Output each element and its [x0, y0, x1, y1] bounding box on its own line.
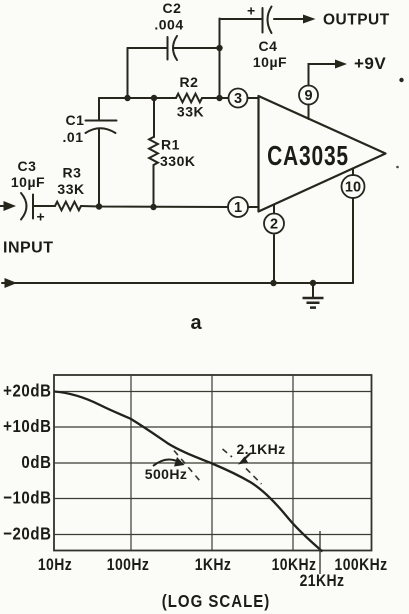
capacitor C4 [247, 3, 272, 34]
wire R2 to pin3 [202, 97, 229, 99]
svg-text:(LOG SCALE): (LOG SCALE) [162, 592, 270, 611]
svg-text:100Hz: 100Hz [107, 556, 149, 574]
wire pin1 to op-amp [248, 206, 258, 208]
ground rail wire [2, 278, 353, 288]
pin 10 [342, 169, 365, 198]
response curve [54, 392, 323, 552]
wire C1 top leg [98, 98, 100, 120]
supply +9V arrow [309, 60, 348, 86]
svg-text:R2: R2 [180, 74, 199, 90]
svg-text:0dB: 0dB [21, 452, 51, 473]
arrow to OUTPUT [303, 15, 316, 24]
pin 2 [264, 205, 284, 234]
gridline 100Hz [130, 375, 132, 551]
wire pin10 to ground rail [352, 198, 354, 283]
gridline -20dB [54, 534, 372, 536]
node wire y98 [99, 97, 176, 99]
svg-text:C3: C3 [18, 158, 37, 174]
capacitor C3 [21, 193, 45, 225]
gridline 10KHz [292, 375, 294, 551]
svg-text:2.1KHz: 2.1KHz [236, 441, 285, 457]
wire top to C4 [220, 18, 263, 20]
gridline 1KHz [211, 375, 213, 551]
svg-text:R1: R1 [161, 137, 180, 153]
21KHz leader line [319, 531, 321, 574]
svg-text:R3: R3 [63, 165, 82, 181]
svg-text:.01: .01 [63, 129, 84, 145]
input arrow [0, 201, 16, 211]
svg-text:C4: C4 [259, 38, 278, 54]
svg-text:+: + [247, 3, 256, 19]
junction dot C2 branch [124, 95, 130, 101]
svg-text:33K: 33K [177, 104, 204, 120]
svg-text:.004: .004 [154, 17, 183, 33]
svg-text:33K: 33K [57, 181, 84, 197]
svg-text:2: 2 [270, 217, 278, 233]
wire pin2 to ground rail [273, 235, 275, 283]
wire R1 bottom leg [153, 165, 155, 207]
op-amp U1 [259, 96, 386, 212]
svg-text:10µF: 10µF [11, 174, 45, 190]
resistor R2 [176, 94, 202, 103]
pin 1 [228, 197, 248, 217]
svg-text:C2: C2 [163, 0, 182, 16]
svg-text:+9V: +9V [354, 54, 386, 73]
annotation 500Hz arrow [153, 457, 185, 467]
svg-text:1: 1 [234, 200, 242, 216]
svg-text:500Hz: 500Hz [145, 466, 187, 482]
pin 9 [299, 86, 318, 105]
resistor R3 [55, 202, 81, 211]
svg-text:21KHz: 21KHz [300, 572, 345, 590]
wire C3 to R3 [33, 205, 55, 207]
ground [303, 283, 324, 308]
gridline +20dB [54, 391, 372, 393]
svg-text:−20dB: −20dB [3, 523, 51, 544]
svg-text:C1: C1 [66, 112, 85, 128]
junction dot R1 [150, 204, 156, 210]
svg-text:10Hz: 10Hz [38, 556, 72, 574]
svg-text:+10dB: +10dB [3, 416, 51, 437]
resistor R1 [149, 137, 158, 165]
svg-text:10: 10 [345, 180, 361, 196]
svg-text:+20dB: +20dB [3, 380, 51, 401]
svg-text:OUTPUT: OUTPUT [323, 12, 390, 29]
wire C4 to output arrow [274, 18, 304, 20]
svg-text:+: + [37, 209, 46, 225]
graph frame [54, 375, 372, 551]
svg-text:CA3035: CA3035 [267, 141, 349, 171]
svg-text:−10dB: −10dB [3, 487, 51, 508]
svg-text:INPUT: INPUT [3, 240, 54, 257]
wire C2 to node [174, 47, 220, 49]
annotation 2.1KHz arrow [238, 454, 250, 465]
speck right of apex [396, 166, 399, 169]
junction dot R1 branch [151, 95, 157, 101]
svg-text:a: a [190, 312, 202, 334]
wire R3 to pin1 [81, 206, 228, 207]
svg-text:9: 9 [304, 88, 312, 104]
svg-text:10µF: 10µF [253, 54, 287, 70]
wire R1 top leg [153, 98, 155, 137]
svg-text:330K: 330K [160, 153, 195, 169]
svg-text:3: 3 [234, 91, 242, 107]
junction dot pin2 [270, 280, 276, 286]
wire output node vertical [219, 19, 221, 99]
wire pin9 to op-amp [308, 105, 310, 120]
junction dot C1 [96, 203, 102, 209]
wire C1 bottom leg [98, 129, 100, 207]
wire C2 left leg [127, 48, 129, 98]
gridline +10dB [54, 426, 372, 428]
gridline -10dB [54, 498, 372, 500]
junction dot ground [310, 280, 316, 286]
speck top right [399, 78, 403, 82]
capacitor C2 [168, 36, 178, 60]
pin 3 [229, 89, 248, 108]
svg-text:1KHz: 1KHz [195, 556, 232, 574]
capacitor C1 [86, 121, 117, 134]
annotation 500Hz dashed asymptote [174, 451, 200, 482]
gridline 0dB [54, 462, 372, 464]
junction dot node/output [216, 95, 222, 101]
wire C2 top left [128, 47, 168, 49]
annotation 2.1KHz dashed asymptote [223, 449, 262, 484]
wire pin3 to op-amp [248, 97, 259, 99]
junction dot [216, 45, 222, 51]
